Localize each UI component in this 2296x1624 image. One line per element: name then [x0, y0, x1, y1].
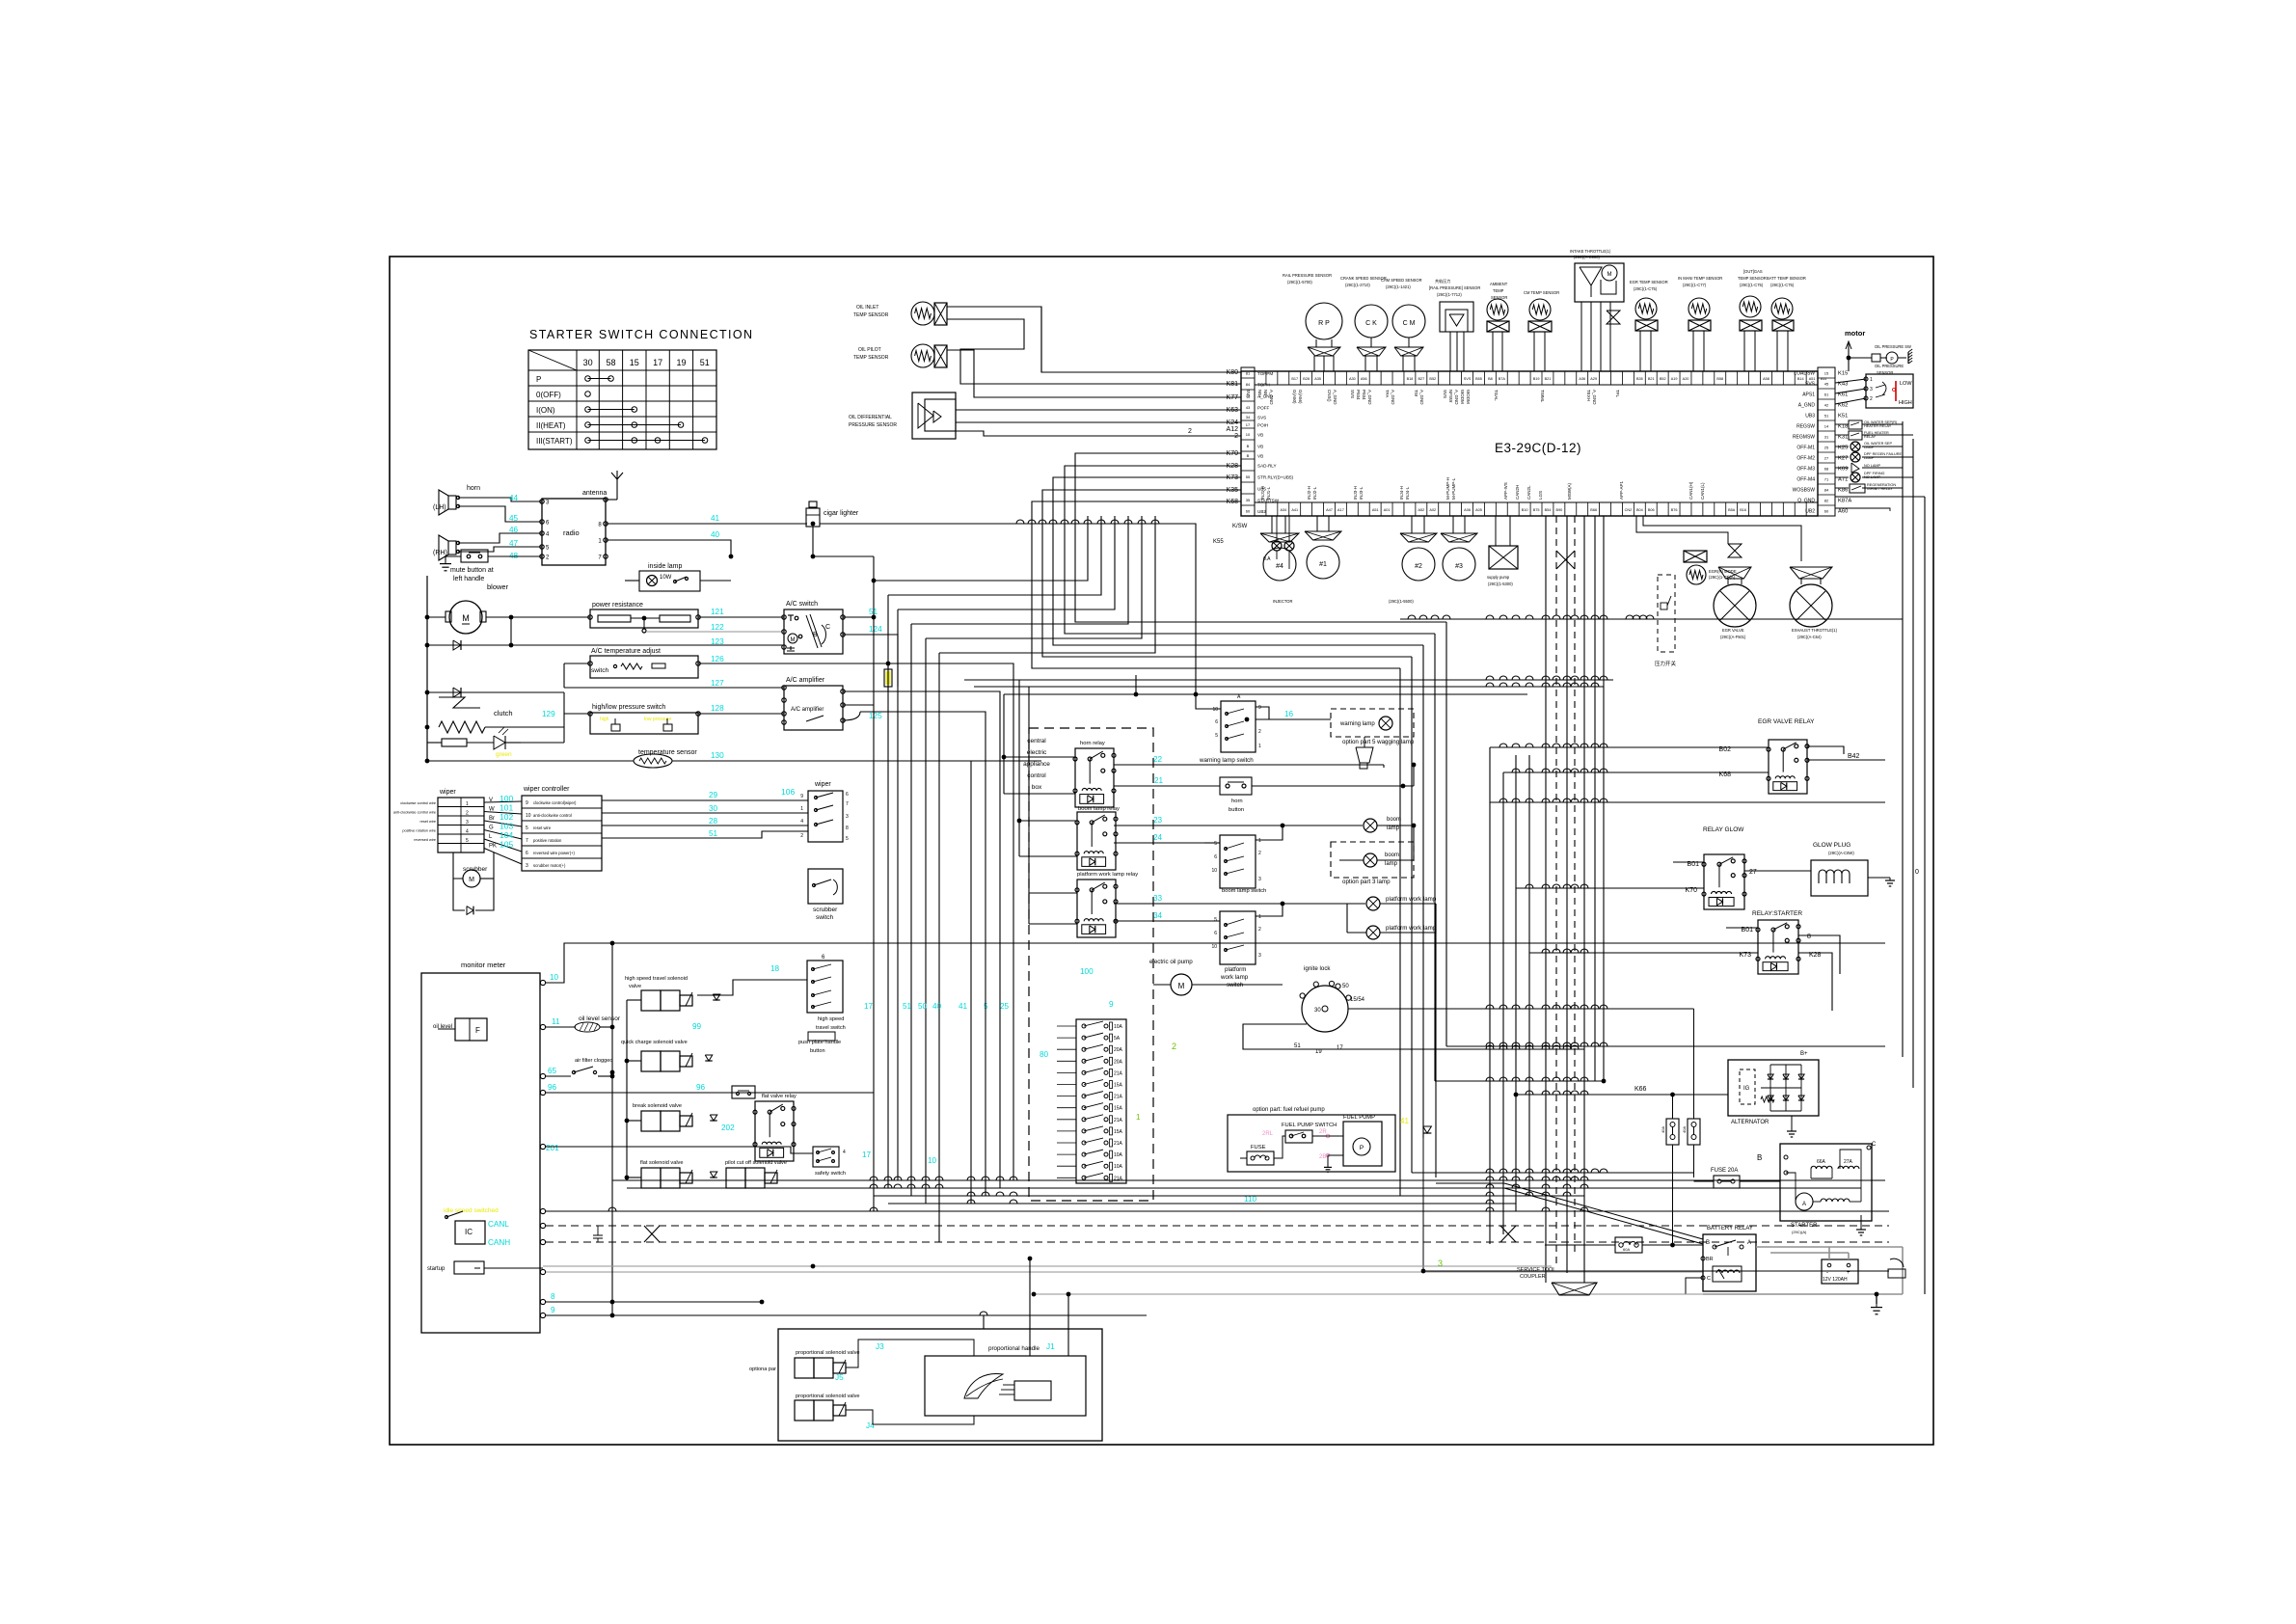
- svg-text:50: 50: [1342, 984, 1349, 989]
- svg-text:65: 65: [548, 1067, 557, 1075]
- svg-text:INJ2-L: INJ2-L: [1312, 486, 1317, 500]
- svg-text:3: 3: [526, 863, 528, 869]
- svg-text:B16: B16: [1740, 508, 1746, 512]
- CAN twist crossing right: [1500, 1226, 1516, 1242]
- EGR wiring: [1630, 516, 1682, 551]
- indicator wires: [1835, 423, 1849, 425]
- svg-text:B19: B19: [1533, 377, 1540, 381]
- LED green: [494, 736, 505, 749]
- svg-text:CRANK SPEED SENSOR: CRANK SPEED SENSOR: [1340, 276, 1387, 281]
- wires 29 30 28 51 to wiper switch: [602, 799, 808, 801]
- svg-text:B27: B27: [1418, 377, 1424, 381]
- k-line verticals to ECU left pins going down: [1075, 453, 1446, 622]
- svg-text:28: 28: [709, 817, 718, 826]
- svg-text:CANL: CANL: [488, 1220, 509, 1229]
- svg-text:platform: platform: [1225, 966, 1246, 973]
- svg-text:10A: 10A: [1114, 1024, 1123, 1030]
- svg-text:optiona par: optiona par: [749, 1367, 776, 1372]
- injector #4: [1260, 533, 1299, 542]
- page border frame: [390, 257, 1933, 1445]
- svg-text:10: 10: [928, 1156, 937, 1165]
- svg-text:INJECTOR: INJECTOR: [1273, 599, 1292, 604]
- K66 wire to alternator: [1516, 1094, 1728, 1096]
- svg-text:SVS: SVS: [1805, 382, 1816, 388]
- starter switch connection table: [528, 350, 716, 449]
- svg-text:20A: 20A: [1114, 1059, 1123, 1065]
- svg-text:C: C: [1707, 1276, 1711, 1282]
- platform work lamp 2: [1366, 926, 1380, 939]
- svg-text:TFL: TFL: [1615, 390, 1620, 397]
- svg-text:button: button: [1229, 807, 1244, 813]
- svg-text:A51: A51: [1372, 508, 1379, 512]
- svg-text:130: 130: [711, 751, 724, 760]
- svg-text:F: F: [475, 1026, 480, 1035]
- wire 123: [426, 647, 428, 649]
- svg-text:B42: B42: [1848, 753, 1860, 760]
- svg-text:15: 15: [630, 358, 639, 367]
- long wire 1121: [1435, 1080, 1604, 1082]
- wires up from handle box: [1029, 1259, 1031, 1329]
- wire 22 warning lamp switch: [1114, 764, 1384, 766]
- svg-text:green: green: [496, 751, 512, 758]
- svg-text:high: high: [600, 717, 609, 722]
- svg-text:WODM: WODM: [1460, 390, 1465, 404]
- svg-text:B75: B75: [1533, 508, 1540, 512]
- svg-text:0: 0: [1915, 869, 1919, 876]
- svg-text:A: A: [1747, 1240, 1751, 1246]
- out gas temp sensor: [1740, 296, 1761, 317]
- svg-text:2B: 2B: [1319, 1154, 1326, 1160]
- intake hourglass valve: [1607, 311, 1620, 324]
- oil level F block: [455, 1018, 487, 1041]
- svg-text:(29C)(1-1421): (29C)(1-1421): [1386, 284, 1411, 289]
- svg-text:B35: B35: [1636, 377, 1643, 381]
- svg-text:TOPPM: TOPPM: [1257, 371, 1273, 376]
- svg-text:P934: P934: [1362, 390, 1366, 400]
- svg-text:TEMP SENSOR: TEMP SENSOR: [1738, 276, 1767, 281]
- svg-text:202: 202: [721, 1123, 735, 1132]
- ambient temp sensor: [1487, 299, 1508, 320]
- svg-text:1: 1: [800, 806, 803, 812]
- svg-text:11: 11: [552, 1017, 560, 1026]
- wire from x843 down: [812, 1266, 814, 1315]
- bus line 1255 right part: [1888, 1211, 1890, 1226]
- svg-text:B: B: [1757, 1153, 1762, 1162]
- svg-text:INJ4-H: INJ4-H: [1399, 486, 1404, 500]
- svg-text:K24: K24: [1227, 420, 1239, 426]
- svg-text:OFF-M4: OFF-M4: [1796, 477, 1815, 483]
- svg-text:lamp: lamp: [1385, 861, 1398, 867]
- svg-text:STR.RLY(D+UB5): STR.RLY(D+UB5): [1257, 475, 1294, 480]
- wire radio pin8 41: [606, 523, 807, 525]
- svg-text:2: 2: [1234, 433, 1238, 440]
- svg-text:B06: B06: [1648, 508, 1655, 512]
- svg-text:electric oil pump: electric oil pump: [1149, 959, 1193, 965]
- corner nest AC outputs down to buses: [698, 663, 1013, 1180]
- svg-text:3: 3: [1870, 387, 1873, 392]
- vertical bus bundle center-left: [873, 556, 875, 1211]
- svg-text:A35: A35: [1314, 377, 1321, 381]
- vertical bundle 1545-1586 relay feeds: [1489, 747, 1491, 1244]
- 60A fuse: [1615, 1237, 1642, 1253]
- svg-text:flat valve relay: flat valve relay: [762, 1094, 797, 1099]
- high/low pressure switch: [590, 713, 698, 734]
- svg-text:45: 45: [1824, 382, 1829, 387]
- svg-text:(29C)(1-C77): (29C)(1-C77): [1683, 283, 1707, 287]
- svg-text:A30: A30: [1349, 377, 1356, 381]
- svg-text:TOPH: TOPH: [1257, 383, 1270, 388]
- svg-text:40A: 40A: [1682, 1126, 1687, 1133]
- diode right of pump box: [1395, 1131, 1423, 1133]
- svg-text:6: 6: [1214, 931, 1217, 936]
- svg-text:A_GND: A_GND: [1798, 403, 1816, 409]
- svg-text:5: 5: [1214, 917, 1217, 923]
- platform work lamp switch: [1220, 911, 1256, 964]
- svg-text:COUPLER: COUPLER: [1520, 1274, 1546, 1280]
- svg-text:124: 124: [869, 625, 882, 634]
- svg-text:B: B: [1247, 453, 1250, 458]
- svg-text:(29C)(A-C64): (29C)(A-C64): [1797, 635, 1822, 639]
- svg-text:3: 3: [846, 814, 849, 820]
- svg-text:共轨压力: 共轨压力: [1435, 278, 1450, 284]
- svg-text:A20: A20: [1683, 377, 1689, 381]
- svg-text:TEMP SENSOR: TEMP SENSOR: [853, 312, 889, 318]
- wire monitor pin10 top bus: [546, 943, 1885, 983]
- svg-text:#2: #2: [1415, 563, 1422, 570]
- svg-text:APS1: APS1: [1802, 392, 1815, 398]
- svg-text:P: P: [1360, 1145, 1364, 1151]
- crank speed sensor CK: [1355, 305, 1388, 338]
- svg-text:horn: horn: [1231, 798, 1243, 804]
- svg-text:C M: C M: [1403, 320, 1416, 327]
- svg-text:44: 44: [509, 494, 519, 502]
- wire 96 row: [546, 1092, 874, 1094]
- startup block: [454, 1261, 484, 1274]
- svg-text:HIGH: HIGH: [1899, 400, 1912, 406]
- svg-text:3: 3: [1258, 953, 1261, 959]
- svg-text:cigar lighter: cigar lighter: [824, 510, 859, 517]
- svg-text:reset wire: reset wire: [420, 820, 436, 824]
- svg-text:#4: #4: [1276, 563, 1283, 570]
- svg-text:9: 9: [551, 1306, 555, 1314]
- svg-text:positive rotation wire: positive rotation wire: [402, 829, 436, 833]
- battery 12V 120AH: [1822, 1259, 1858, 1284]
- svg-text:51: 51: [700, 358, 710, 367]
- svg-text:REGMSW: REGMSW: [1793, 435, 1815, 441]
- svg-text:17: 17: [864, 1002, 874, 1011]
- svg-text:30: 30: [583, 358, 593, 367]
- svg-text:20A: 20A: [1114, 1047, 1123, 1053]
- resistor on lamp branch: [427, 742, 590, 744]
- svg-text:30: 30: [1314, 1008, 1321, 1014]
- svg-text:A_GND: A_GND: [1391, 390, 1395, 405]
- small button box: [732, 1086, 755, 1098]
- svg-text:electric: electric: [1027, 749, 1047, 756]
- diagonal double wire to battery relay B: [1504, 1183, 1703, 1239]
- svg-text:60A: 60A: [1623, 1247, 1630, 1252]
- svg-text:FUSE: FUSE: [1251, 1145, 1266, 1150]
- inside lamp: [639, 571, 700, 591]
- svg-text:7: 7: [526, 838, 528, 844]
- svg-text:inside lamp: inside lamp: [648, 563, 683, 570]
- svg-text:boom lamp switch: boom lamp switch: [1222, 888, 1266, 894]
- svg-text:K28: K28: [1227, 463, 1239, 470]
- wires ECU to LOWHIGH: [1835, 377, 1866, 379]
- svg-text:27: 27: [1749, 869, 1757, 876]
- svg-text:K66: K66: [1634, 1086, 1647, 1093]
- svg-text:positive rotation: positive rotation: [533, 838, 562, 843]
- wire 124: [843, 635, 898, 687]
- svg-text:[RAIL PRESSURE] SENSOR: [RAIL PRESSURE] SENSOR: [1429, 285, 1480, 290]
- svg-text:BR: BR: [1706, 1257, 1714, 1262]
- svg-text:V: V: [489, 798, 493, 803]
- svg-text:123: 123: [711, 637, 724, 646]
- svg-text:B7A: B7A: [1499, 377, 1506, 381]
- svg-text:UB2: UB2: [1257, 509, 1266, 514]
- svg-text:LGS: LGS: [1538, 491, 1543, 500]
- svg-text:41: 41: [711, 514, 720, 523]
- svg-text:A/C temperature adjust: A/C temperature adjust: [591, 648, 661, 655]
- svg-text:OIL PRESSURE SW: OIL PRESSURE SW: [1875, 344, 1911, 349]
- svg-text:OFF-M1: OFF-M1: [1796, 446, 1815, 451]
- svg-text:safety switch: safety switch: [815, 1171, 846, 1177]
- svg-text:scrubber: scrubber: [463, 866, 488, 873]
- platform work lamp 1: [1366, 897, 1380, 910]
- svg-text:A19: A19: [1671, 377, 1678, 381]
- svg-text:(29C)(1-C75): (29C)(1-C75): [1634, 286, 1658, 291]
- wire bundle AC to center: [873, 581, 875, 617]
- bus lines lower area: [612, 1179, 1885, 1181]
- svg-text:PK: PK: [489, 844, 497, 850]
- speaker RH: [448, 541, 456, 555]
- svg-text:100: 100: [1080, 967, 1094, 976]
- svg-text:flat solenoid valve: flat solenoid valve: [640, 1160, 683, 1166]
- svg-text:EXHAUST THROTTLE(1): EXHAUST THROTTLE(1): [1792, 628, 1838, 633]
- svg-text:50: 50: [918, 1002, 928, 1011]
- wire 33: [1114, 903, 1365, 905]
- svg-text:122: 122: [711, 623, 724, 632]
- svg-text:control: control: [1027, 772, 1046, 779]
- svg-text:9: 9: [800, 794, 803, 799]
- svg-text:POFF: POFF: [1257, 406, 1269, 411]
- svg-text:K63: K63: [1227, 407, 1239, 414]
- svg-text:17: 17: [653, 358, 662, 367]
- svg-text:81: 81: [1246, 371, 1251, 376]
- svg-text:B10: B10: [1522, 508, 1528, 512]
- svg-text:104: 104: [500, 830, 513, 840]
- svg-text:84: 84: [1824, 488, 1829, 493]
- svg-text:VB: VB: [1257, 445, 1263, 449]
- svg-text:127: 127: [711, 679, 724, 688]
- svg-text:15A: 15A: [1114, 1129, 1123, 1135]
- svg-text:K/SW: K/SW: [1232, 524, 1248, 529]
- svg-text:CM TEMP SENSOR: CM TEMP SENSOR: [1524, 290, 1559, 295]
- svg-text:REGSW: REGSW: [1796, 424, 1815, 430]
- svg-text:2: 2: [1188, 428, 1192, 435]
- svg-text:M: M: [791, 637, 796, 643]
- svg-text:CAN2L: CAN2L: [1526, 485, 1531, 500]
- clutch symbol: [439, 697, 480, 708]
- svg-text:1: 1: [466, 801, 469, 807]
- svg-text:60: 60: [1246, 509, 1251, 514]
- svg-text:platform work lamp: platform work lamp: [1386, 896, 1437, 903]
- svg-text:BATTERY RELAY: BATTERY RELAY: [1707, 1226, 1753, 1232]
- svg-text:15A: 15A: [1114, 1106, 1123, 1112]
- svg-text:6: 6: [526, 851, 528, 856]
- svg-text:2RL: 2RL: [1262, 1131, 1274, 1137]
- svg-text:10: 10: [1246, 432, 1251, 437]
- svg-text:G(A50): G(A50): [1292, 390, 1297, 404]
- svg-text:CAM SPEED SENSOR: CAM SPEED SENSOR: [1381, 278, 1422, 283]
- svg-text:high/low pressure switch: high/low pressure switch: [592, 704, 665, 711]
- svg-text:TW: TW: [1414, 390, 1418, 397]
- wire monitor 9: [546, 1314, 1147, 1316]
- svg-text:VB: VB: [1257, 454, 1263, 459]
- svg-text:B26: B26: [1303, 377, 1310, 381]
- svg-text:A06: A06: [1464, 508, 1471, 512]
- svg-text:14: 14: [1824, 424, 1829, 429]
- svg-text:INJ3-L: INJ3-L: [1359, 486, 1364, 500]
- svg-text:9: 9: [1109, 1000, 1114, 1009]
- svg-text:B52: B52: [1429, 377, 1436, 381]
- svg-text:15: 15: [1824, 371, 1829, 376]
- svg-text:(29C)(A): (29C)(A): [1792, 1230, 1807, 1234]
- svg-text:SVS: SVS: [1464, 377, 1472, 381]
- svg-text:OIL DIFFERENTIAL: OIL DIFFERENTIAL: [849, 415, 892, 420]
- svg-text:(29C)(1-7712): (29C)(1-7712): [1437, 292, 1462, 297]
- svg-text:3: 3: [466, 820, 469, 826]
- svg-text:2: 2: [800, 833, 803, 839]
- wires bottom of fusebox: [1083, 1183, 1085, 1196]
- boom lamp: [1364, 819, 1377, 832]
- svg-text:APP-IVS: APP-IVS: [1503, 482, 1508, 500]
- diode D2: [427, 691, 564, 693]
- svg-text:valve: valve: [629, 984, 641, 989]
- svg-text:A_GND: A_GND: [1592, 390, 1597, 405]
- oil temp sensor 2: [911, 344, 934, 367]
- svg-text:scrubber: scrubber: [813, 907, 838, 913]
- svg-text:WOSBSW: WOSBSW: [1793, 488, 1816, 494]
- svg-text:TGAL: TGAL: [1494, 390, 1499, 401]
- svg-text:10: 10: [1211, 944, 1217, 950]
- svg-text:TEMP SENSOR: TEMP SENSOR: [853, 355, 889, 361]
- svg-text:B8: B8: [1488, 377, 1493, 381]
- svg-text:A34: A34: [1280, 508, 1286, 512]
- svg-text:5: 5: [846, 836, 849, 842]
- svg-text:G(A56): G(A56): [1298, 390, 1303, 404]
- ECU top pin row: [1255, 371, 1818, 385]
- svg-text:anti-clockwise control wire: anti-clockwise control wire: [393, 811, 436, 815]
- wiper connector X-wiper: [438, 798, 484, 853]
- svg-text:B76: B76: [1671, 508, 1678, 512]
- svg-text:51: 51: [709, 829, 718, 838]
- svg-text:CNS(): CNS(): [1327, 390, 1332, 402]
- injector #3: [1441, 533, 1477, 542]
- svg-text:9: 9: [1258, 705, 1261, 711]
- gray bus wires bottom: [546, 1293, 1703, 1295]
- svg-text:1: 1: [1258, 914, 1261, 920]
- svg-text:B: B: [1247, 444, 1250, 448]
- svg-text:B55: B55: [1475, 377, 1482, 381]
- battery temp sensor: [1771, 298, 1793, 319]
- fuse box stack: [1076, 1019, 1126, 1183]
- svg-text:A05: A05: [1475, 508, 1482, 512]
- svg-text:G: G: [489, 826, 494, 831]
- EGR mode solenoid: [1684, 551, 1707, 562]
- wire platform feed: [1308, 921, 1347, 933]
- svg-text:128: 128: [711, 704, 724, 713]
- lower gray line: [543, 1265, 1552, 1267]
- boom lamp relay: [1077, 812, 1116, 870]
- svg-text:power resistance: power resistance: [592, 602, 643, 609]
- svg-text:1: 1: [1258, 838, 1261, 844]
- svg-text:ALTERNATOR: ALTERNATOR: [1731, 1120, 1769, 1125]
- svg-text:B66: B66: [1590, 508, 1597, 512]
- svg-text:boom: boom: [1385, 853, 1399, 858]
- svg-text:J5: J5: [835, 1373, 844, 1382]
- svg-text:OIL PILOT: OIL PILOT: [858, 347, 881, 353]
- svg-text:77: 77: [1246, 393, 1251, 398]
- svg-text:2: 2: [466, 811, 469, 817]
- ECU right pin column: [1818, 367, 1835, 516]
- svg-text:reversed wire: reversed wire: [414, 838, 436, 842]
- svg-text:II(HEAT): II(HEAT): [536, 421, 566, 430]
- svg-text:OIL PRESSURE: OIL PRESSURE: [1875, 364, 1904, 368]
- svg-text:POIH: POIH: [1257, 423, 1268, 428]
- svg-text:M-PUMP-L: M-PUMP-L: [1451, 477, 1456, 500]
- horn button: [1220, 777, 1252, 795]
- svg-text:B: B: [813, 632, 818, 638]
- svg-text:A_GND: A_GND: [1454, 390, 1459, 405]
- svg-text:switch: switch: [816, 914, 833, 921]
- svg-text:AMBIENT: AMBIENT: [1490, 282, 1508, 286]
- temperature sensor: [634, 754, 672, 768]
- wire speaker RH to radio: [458, 533, 542, 543]
- CAN bus dashed CANH: [546, 1241, 1889, 1243]
- svg-text:B18: B18: [1407, 377, 1414, 381]
- svg-text:air filter clogged: air filter clogged: [575, 1058, 613, 1064]
- right indicator stack: [1849, 420, 1862, 429]
- svg-text:VB: VB: [1257, 433, 1263, 438]
- svg-text:RELAY: RELAY: [1864, 435, 1877, 439]
- svg-text:PRESSURE SENSOR: PRESSURE SENSOR: [849, 422, 897, 428]
- proportional handle outer box: [778, 1329, 1102, 1441]
- oil level sensor: [546, 1026, 576, 1028]
- corner nest AC wires to ECU bottom: [874, 516, 1088, 581]
- svg-text:option part 5 wagging lamp: option part 5 wagging lamp: [1342, 739, 1415, 745]
- svg-text:34: 34: [1153, 911, 1163, 920]
- svg-text:clutch: clutch: [494, 709, 513, 717]
- svg-text:96: 96: [696, 1083, 706, 1092]
- hline y560: [605, 539, 607, 541]
- option part fuel refuel pump box: [1228, 1115, 1395, 1172]
- ECU bottom pin row: [1255, 502, 1818, 516]
- svg-text:5A: 5A: [1114, 1036, 1121, 1042]
- svg-text:C: C: [1872, 1142, 1877, 1148]
- svg-text:E3-29C(D-12): E3-29C(D-12): [1495, 441, 1581, 455]
- svg-text:100: 100: [500, 794, 513, 803]
- svg-text:high speed: high speed: [818, 1016, 844, 1022]
- svg-text:radio: radio: [563, 528, 580, 537]
- svg-text:19: 19: [676, 358, 686, 367]
- svg-text:III(START): III(START): [536, 437, 573, 446]
- radio U-radio: [542, 499, 606, 565]
- svg-text:A60: A60: [1838, 509, 1848, 515]
- svg-text:warning lamp: warning lamp: [1339, 721, 1375, 727]
- wires from radio right to ECU area: [606, 555, 813, 557]
- power resistance R-blower: [590, 609, 698, 628]
- svg-text:A/C amplifier: A/C amplifier: [786, 677, 825, 684]
